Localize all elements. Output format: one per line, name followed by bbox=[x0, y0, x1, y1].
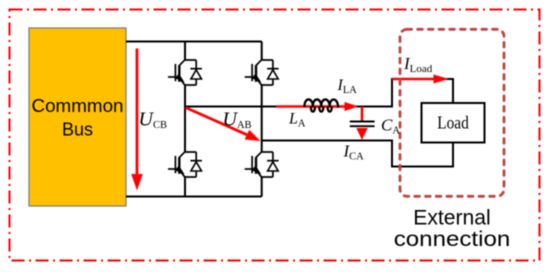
wire: right leg segments bbox=[261, 42, 263, 197]
IGBT with antiparallel diode, top-right bbox=[245, 60, 279, 86]
svg-text:connection: connection bbox=[394, 227, 511, 251]
load box bbox=[422, 103, 485, 143]
voltage arrow UAB bbox=[186, 108, 261, 142]
svg-text:ICA: ICA bbox=[343, 141, 365, 162]
svg-text:Load: Load bbox=[437, 113, 469, 133]
svg-text:ILoad: ILoad bbox=[403, 54, 433, 75]
wire: node A output to filter bbox=[185, 106, 392, 108]
wire: DC positive rail bbox=[126, 41, 262, 43]
IGBT with antiparallel diode, top-left bbox=[168, 60, 202, 86]
wire: A riser and top link to load bbox=[392, 79, 453, 108]
svg-text:Bus: Bus bbox=[62, 118, 93, 139]
current arrow ILoad bbox=[392, 75, 449, 84]
svg-text:CA: CA bbox=[381, 116, 400, 137]
svg-text:LA: LA bbox=[288, 110, 306, 129]
svg-text:UCB: UCB bbox=[139, 108, 167, 131]
svg-text:Commmon: Commmon bbox=[32, 95, 124, 116]
label External connection bbox=[394, 206, 511, 251]
external connection dashed box bbox=[400, 29, 504, 196]
inductor LA bbox=[304, 99, 338, 111]
svg-text:UAB: UAB bbox=[223, 108, 252, 131]
wire: left leg segments bbox=[184, 42, 186, 197]
IGBT with antiparallel diode, bottom-left bbox=[168, 152, 202, 178]
svg-text:ILA: ILA bbox=[337, 77, 358, 96]
current arrow ILA bbox=[276, 102, 359, 111]
svg-text:External: External bbox=[413, 206, 491, 230]
wire: node B return bbox=[262, 140, 392, 142]
capacitor CA bbox=[350, 122, 375, 127]
voltage arrow UCB bbox=[131, 49, 143, 191]
wire: DC negative rail bbox=[126, 196, 262, 198]
common bus block bbox=[29, 28, 126, 206]
IGBT with antiparallel diode, bottom-right bbox=[245, 152, 279, 178]
current arrow ICA through capacitor bbox=[356, 107, 367, 141]
wire: B drop and bottom link to load bbox=[392, 140, 453, 167]
